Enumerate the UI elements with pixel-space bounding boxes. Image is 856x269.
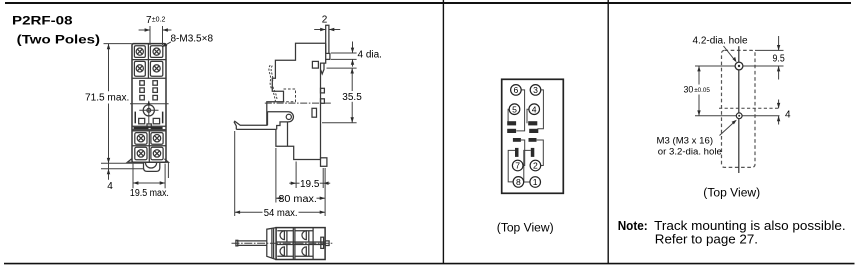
contact bar upper-left 1 [507, 121, 516, 125]
svg-text:M3 (M3 x 16): M3 (M3 x 16) [657, 135, 714, 146]
top cells top line [277, 230, 293, 232]
dark band [132, 125, 166, 127]
terminal circles with numbers [509, 85, 541, 188]
svg-text:2: 2 [533, 161, 538, 171]
svg-text:or 3.2-dia. hole: or 3.2-dia. hole [658, 146, 722, 157]
release lever arm [234, 121, 277, 129]
tab screw notch [145, 162, 156, 168]
inner square hole mid [312, 108, 317, 117]
top terminal block divider vertical [147, 44, 149, 79]
svg-text:(Two Poles): (Two Poles) [17, 34, 101, 46]
connector line 8 [508, 150, 515, 182]
top hole 4.2 dia [735, 62, 743, 70]
screw D arcs bottom-left [280, 247, 284, 256]
hold-down tongue [326, 25, 329, 53]
svg-text:2: 2 [322, 14, 328, 25]
terminal cell boxes top block [134, 46, 145, 58]
dim 19.5 max [132, 164, 134, 189]
contact bar lower-right horizontal [529, 138, 537, 142]
top terminal block bottom edge [132, 77, 166, 79]
main outline upper [267, 43, 326, 125]
connector line 4 [527, 109, 529, 123]
right screw washer [321, 237, 324, 248]
dim 4 (tab) [101, 162, 144, 164]
left trapezoid part [267, 228, 276, 260]
top border rule [5, 2, 851, 4]
center mounting screw [143, 105, 154, 116]
vertical line with up arrow to center screw [148, 101, 150, 123]
contact bar lower-right vertical [531, 148, 535, 157]
hidden hole dashed box [284, 89, 296, 102]
lip corner projection line [167, 162, 169, 178]
connector line 3 [537, 90, 543, 129]
dim 35.5 [327, 67, 357, 69]
svg-text:Refer to page 27.: Refer to page 27. [655, 232, 758, 247]
dim 30 max [275, 148, 277, 203]
screw D arcs bottom-right [302, 247, 306, 256]
bottom hole M3 [736, 113, 742, 119]
svg-text:±0.2: ±0.2 [152, 17, 166, 24]
screw D arcs top-left [280, 231, 284, 240]
svg-text:30: 30 [684, 85, 694, 95]
bottom border rule [4, 263, 855, 265]
mounting tab [144, 162, 160, 171]
svg-text:(Top View): (Top View) [497, 220, 554, 234]
top hole crosshair [695, 65, 784, 67]
contact bar upper-left 2 [507, 129, 516, 133]
connector line 6 [516, 90, 524, 131]
horizontal center line across body [130, 103, 169, 105]
4 dia hold pin [326, 53, 330, 59]
bottom hole crosshair [695, 115, 780, 117]
dim 54 max [234, 131, 236, 216]
connector line 7 [521, 140, 525, 166]
svg-text:4 dia.: 4 dia. [358, 50, 382, 61]
screw with cross, top block x4 [136, 48, 160, 72]
bottom right tab [321, 158, 327, 167]
latch body [268, 112, 294, 130]
svg-text:(Top View): (Top View) [703, 186, 760, 200]
vertical center line [738, 46, 740, 173]
svg-text:30 max.: 30 max. [278, 194, 317, 205]
column separator 2 [607, 0, 609, 264]
svg-text:4: 4 [532, 104, 537, 114]
svg-text:19.5 max.: 19.5 max. [130, 188, 169, 199]
body outline [132, 44, 166, 163]
contact bar upper-right 1 [528, 121, 537, 125]
screw D arcs top-right [302, 231, 306, 240]
connector line 5 [508, 109, 509, 123]
bottom cells bottom line [277, 255, 293, 257]
connector line 2 [537, 140, 544, 166]
svg-text:Note:: Note: [618, 218, 648, 233]
latch pivot circle [286, 114, 291, 119]
svg-text:5: 5 [512, 104, 517, 114]
cells right boundary [312, 228, 314, 260]
socket dashed outline [722, 50, 756, 167]
center line [232, 242, 333, 244]
latch seam line [287, 122, 289, 146]
screw with cross, bottom block x4 [137, 135, 161, 158]
center line [265, 102, 331, 104]
bottom block top edge [132, 130, 166, 132]
svg-text:35.5: 35.5 [342, 92, 362, 103]
contact bar lower-left vertical [515, 148, 519, 157]
small center rectangle [147, 124, 151, 128]
main outline lower left [276, 129, 321, 159]
outer rect [502, 79, 564, 193]
svg-text:9.5: 9.5 [773, 53, 786, 64]
bottom block dividers [132, 145, 166, 147]
svg-text:4.2-dia. hole: 4.2-dia. hole [693, 36, 748, 47]
right screw stub [325, 241, 329, 246]
contact bar lower-left horizontal [513, 138, 521, 142]
terminal cell boxes bottom block [135, 133, 147, 145]
svg-text:54 max.: 54 max. [264, 208, 298, 219]
main body rect [276, 228, 325, 260]
inner square hole upper [312, 61, 318, 68]
middle horizontal lines [276, 241, 325, 243]
bottom lip [127, 159, 168, 162]
svg-text:4: 4 [785, 109, 791, 120]
relay pin holes 6 small squares [140, 81, 158, 100]
svg-text:8-M3.5×8: 8-M3.5×8 [171, 33, 214, 44]
dim 4 [778, 100, 780, 109]
dim 30+-0.05 [698, 66, 700, 85]
hidden spring dashed curve [269, 65, 276, 101]
top terminal block divider horizontal [132, 59, 166, 61]
svg-text:±0.05: ±0.05 [694, 87, 710, 94]
dim 71.5 max [104, 43, 132, 45]
svg-text:71.5 max.: 71.5 max. [85, 93, 129, 104]
larger pin holes row [139, 118, 145, 123]
svg-text:1: 1 [533, 177, 538, 187]
svg-text:P2RF-08: P2RF-08 [12, 16, 73, 28]
side rail bars [135, 112, 137, 124]
dashed edge line [719, 107, 780, 109]
svg-text:19.5: 19.5 [300, 179, 320, 190]
svg-text:6: 6 [514, 85, 519, 95]
relay face [321, 43, 326, 159]
V notch pocket [321, 63, 324, 74]
face slot bumps [321, 88, 325, 93]
contact bar upper-right 2 [529, 129, 538, 133]
svg-text:4: 4 [107, 181, 113, 192]
connector line 1 [524, 150, 531, 182]
release rod [237, 240, 267, 242]
column separator 1 [442, 0, 444, 264]
svg-text:8: 8 [516, 177, 521, 187]
svg-text:7: 7 [515, 161, 520, 171]
svg-text:3: 3 [533, 85, 538, 95]
dim 9.5 [755, 49, 784, 51]
center divider double line [292, 228, 294, 260]
dim 19.5 [295, 162, 297, 189]
latch left edge [267, 112, 269, 126]
